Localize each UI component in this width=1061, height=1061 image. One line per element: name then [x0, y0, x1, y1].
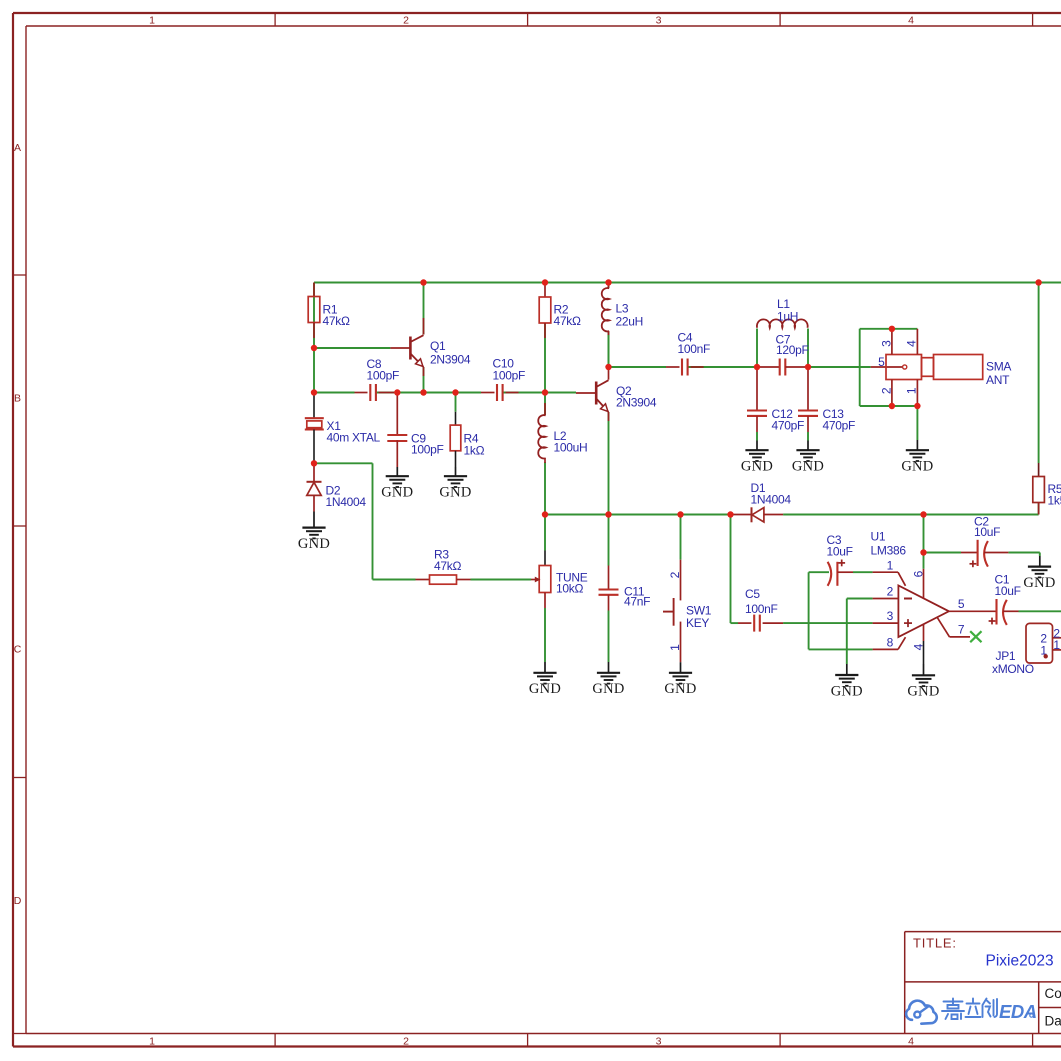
wire C10 right to Q2 base node — [503, 392, 576, 394]
svg-text:3: 3 — [880, 340, 894, 347]
svg-text:LM386: LM386 — [871, 544, 907, 558]
wire L1 left riser — [756, 329, 758, 368]
potentiometer TUNE 10k — [544, 551, 546, 566]
wire Q1 emitter down — [423, 367, 425, 393]
svg-text:10uF: 10uF — [827, 545, 853, 559]
crystal X1 — [313, 393, 315, 419]
svg-text:100pF: 100pF — [493, 369, 526, 383]
wire R2 top pin stub — [544, 283, 546, 298]
svg-text:8: 8 — [887, 636, 894, 650]
svg-text:3: 3 — [656, 1036, 662, 1048]
wire SMA pin1 to GND — [916, 406, 918, 440]
svg-text:1N4004: 1N4004 — [751, 493, 792, 507]
wire R1 to Q1 base — [314, 347, 390, 349]
svg-text:GND: GND — [664, 681, 696, 697]
inductor L3 — [608, 284, 610, 288]
U1 pin 1 — [873, 571, 898, 573]
wire R2 bottom to node — [544, 323, 546, 415]
logo char li — [966, 999, 981, 1018]
JP1 pin 2 — [1053, 637, 1061, 639]
svg-text:TITLE:: TITLE: — [913, 936, 957, 951]
wire Q1 collector up — [423, 283, 425, 335]
svg-text:1: 1 — [887, 559, 894, 573]
connector JP1 xMONO — [1026, 623, 1053, 663]
svg-text:1: 1 — [1053, 638, 1060, 652]
wire L1 right riser — [807, 329, 809, 368]
wire C3 feedback loop to pin8 — [809, 571, 829, 573]
wire R3 to TUNE wiper — [471, 579, 532, 581]
junction dots — [420, 279, 426, 285]
wire D1 to R5 corner — [783, 514, 1039, 516]
wire C8 to Q1 emitter node — [376, 392, 481, 394]
wire R5 branch vertical — [1038, 283, 1040, 464]
op-amp U1 LM386 — [898, 586, 949, 638]
ground C12 — [756, 441, 758, 451]
wire U1 riser from node row — [923, 515, 925, 569]
resistor R1 — [313, 283, 315, 297]
svg-text:120pF: 120pF — [776, 343, 809, 357]
svg-text:SMA: SMA — [986, 360, 1011, 374]
svg-text:GND: GND — [907, 684, 939, 700]
svg-text:A: A — [14, 142, 21, 154]
capacitor C5 — [738, 622, 751, 624]
wire D2 node to R3 riser — [314, 462, 373, 464]
SMA pin 2 — [891, 380, 893, 407]
wire C4 to L1 node — [688, 366, 757, 368]
ground TUNE — [544, 662, 546, 673]
ground R4 — [455, 467, 457, 476]
capacitor C9 — [396, 393, 398, 436]
svg-text:GND: GND — [831, 683, 863, 699]
logo char jia — [942, 999, 964, 1020]
U1 pin 3 — [873, 622, 899, 624]
svg-text:1uH: 1uH — [777, 310, 798, 324]
svg-text:GND: GND — [381, 485, 413, 501]
U1 pin 8 — [873, 648, 898, 650]
capacitor C1 polarized — [995, 599, 997, 625]
wire VCC top rail — [314, 282, 1061, 284]
svg-text:100nF: 100nF — [678, 342, 711, 356]
svg-text:L3: L3 — [616, 302, 629, 316]
svg-text:JP1: JP1 — [996, 649, 1016, 663]
svg-text:KEY: KEY — [686, 616, 709, 630]
capacitor C7 — [757, 366, 780, 368]
svg-text:22uH: 22uH — [616, 315, 644, 329]
ground D2 — [313, 512, 315, 528]
svg-text:GND: GND — [901, 459, 933, 475]
svg-text:10uF: 10uF — [974, 525, 1000, 539]
svg-text:1k5: 1k5 — [1048, 494, 1061, 508]
svg-text:C: C — [14, 644, 22, 656]
wire U1 pin2 loop to GND — [847, 598, 873, 600]
svg-text:100pF: 100pF — [367, 369, 400, 383]
wire oscillator node row — [314, 392, 355, 394]
svg-text:GND: GND — [439, 485, 471, 501]
svg-text:4: 4 — [908, 14, 914, 26]
svg-text:1: 1 — [149, 1036, 155, 1048]
inductor L1 — [757, 319, 808, 327]
svg-text:1kΩ: 1kΩ — [464, 444, 485, 458]
svg-text:B: B — [14, 393, 21, 405]
resistor R5 — [1038, 463, 1040, 477]
svg-text:2: 2 — [668, 571, 682, 578]
diode D2 — [313, 463, 315, 482]
logo char chuang — [983, 999, 998, 1018]
svg-text:4: 4 — [912, 643, 926, 650]
svg-text:470pF: 470pF — [772, 419, 805, 433]
ground C13 — [807, 441, 809, 451]
wire TUNE bottom to GND — [544, 608, 546, 662]
svg-text:EDA: EDA — [999, 1001, 1037, 1022]
wire C7 output to SMA pin5 — [808, 366, 871, 368]
border column ticks bottom — [274, 1034, 276, 1047]
svg-text:10kΩ: 10kΩ — [556, 582, 583, 596]
wire C1 output to edge — [1019, 610, 1061, 612]
wire C5 to U1 pin3 — [783, 622, 873, 624]
ground U1 pin2 net — [846, 664, 848, 675]
svg-text:2: 2 — [403, 1036, 409, 1048]
U1 pin 6 — [923, 569, 925, 598]
wire C2 to GND corner — [1008, 552, 1039, 554]
title block frame — [905, 932, 1061, 1034]
svg-text:100pF: 100pF — [411, 443, 444, 457]
svg-text:1N4004: 1N4004 — [326, 495, 367, 509]
svg-text:5: 5 — [958, 597, 965, 611]
resistor R4 — [455, 393, 457, 412]
U1 pin 5 — [949, 610, 997, 612]
svg-text:47kΩ: 47kΩ — [554, 314, 581, 328]
wire C11 bottom to GND — [608, 611, 610, 663]
wire SW1 top to node row — [680, 515, 682, 560]
wire Q2 emitter down to node row — [608, 412, 610, 515]
svg-text:Date: Date — [1045, 1014, 1061, 1029]
resistor R2 — [539, 297, 551, 323]
svg-text:40m XTAL: 40m XTAL — [327, 431, 381, 445]
svg-text:4: 4 — [905, 340, 919, 347]
svg-text:100uH: 100uH — [554, 441, 588, 455]
svg-text:C5: C5 — [745, 587, 760, 601]
border row ticks left — [13, 274, 26, 276]
SMA pin 4 — [916, 329, 918, 355]
wire L2 bottom to node row — [544, 462, 546, 515]
switch SW1 KEY — [680, 560, 682, 601]
svg-text:2: 2 — [403, 14, 409, 26]
capacitor C2 polarized — [961, 552, 978, 554]
ground SMA — [916, 440, 918, 450]
svg-text:GND: GND — [529, 681, 561, 697]
svg-text:2N3904: 2N3904 — [430, 353, 471, 367]
inductor L2 — [544, 403, 546, 415]
svg-text:6: 6 — [912, 570, 926, 577]
svg-text:GND: GND — [792, 459, 824, 475]
JP1 pin 1 — [1053, 649, 1061, 651]
svg-text:7: 7 — [958, 623, 965, 637]
svg-text:4: 4 — [908, 1036, 914, 1048]
wire R1 column vertical — [313, 283, 315, 393]
capacitor C11 — [608, 566, 610, 590]
wire C11 top to node row — [608, 515, 610, 566]
svg-text:470pF: 470pF — [823, 419, 856, 433]
svg-text:1: 1 — [905, 387, 919, 394]
wire SMA shield bottom — [860, 405, 918, 407]
wire C5 riser from node row — [730, 515, 732, 624]
svg-text:U1: U1 — [871, 530, 886, 544]
wire C3 to U1 pin1 — [853, 571, 873, 573]
ground SW1 — [680, 662, 682, 673]
wire C2 branch — [924, 552, 962, 554]
ground C2 — [1039, 556, 1041, 567]
wire SMA shield left riser — [859, 329, 861, 406]
svg-text:100nF: 100nF — [745, 602, 778, 616]
ground C9 — [396, 467, 398, 476]
svg-text:GND: GND — [741, 459, 773, 475]
svg-text:xMONO: xMONO — [992, 662, 1034, 676]
svg-text:GND: GND — [1023, 575, 1055, 591]
wire TUNE top pin to node row — [544, 515, 546, 551]
capacitor C8 — [355, 392, 368, 394]
transistor Q2 — [576, 392, 596, 394]
SMA pin 3 — [891, 329, 893, 355]
transistor Q1 — [390, 347, 410, 349]
svg-text:2N3904: 2N3904 — [616, 396, 657, 410]
svg-text:47kΩ: 47kΩ — [323, 314, 350, 328]
svg-text:Q1: Q1 — [430, 339, 446, 353]
resistor R3 — [416, 579, 430, 581]
svg-text:GND: GND — [592, 681, 624, 697]
svg-text:Pixie2023: Pixie2023 — [986, 953, 1054, 970]
wire Q2 collector node to C4 — [609, 366, 667, 368]
wire riser to R3 — [373, 579, 416, 581]
connector SMA ANT — [871, 366, 903, 368]
capacitor C4 — [666, 366, 680, 368]
logo JLCEDA cloud — [906, 1001, 937, 1024]
svg-text:D: D — [14, 895, 22, 907]
U1 pin 2 — [873, 598, 899, 600]
wire node row bottom left — [545, 514, 734, 516]
svg-text:ANT: ANT — [986, 373, 1010, 387]
ground U1 pin4 — [923, 664, 925, 675]
U1 pin 4 — [923, 624, 925, 641]
svg-text:5: 5 — [878, 355, 885, 369]
svg-text:2: 2 — [880, 387, 894, 394]
capacitor C12 — [756, 367, 758, 411]
svg-text:10uF: 10uF — [995, 584, 1021, 598]
svg-text:1: 1 — [668, 644, 682, 651]
wire SMA shield top — [860, 328, 918, 330]
wire L3 bottom to C4 node — [608, 283, 610, 288]
SMA pin 1 — [916, 380, 918, 407]
capacitor C10 — [481, 392, 495, 394]
svg-text:3: 3 — [656, 14, 662, 26]
diode D1 — [734, 514, 752, 516]
svg-text:47kΩ: 47kΩ — [434, 559, 461, 573]
U1 pin 7 no-connect — [937, 618, 949, 637]
border column ticks top — [274, 13, 276, 26]
svg-text:1: 1 — [149, 14, 155, 26]
svg-text:47nF: 47nF — [624, 595, 650, 609]
capacitor C3 polarized — [828, 562, 832, 586]
ground C11 — [608, 662, 610, 673]
svg-text:GND: GND — [298, 536, 330, 552]
svg-text:Company: Company — [1045, 986, 1061, 1001]
svg-text:3: 3 — [887, 609, 894, 623]
svg-text:2: 2 — [887, 585, 894, 599]
capacitor C13 — [807, 367, 809, 411]
